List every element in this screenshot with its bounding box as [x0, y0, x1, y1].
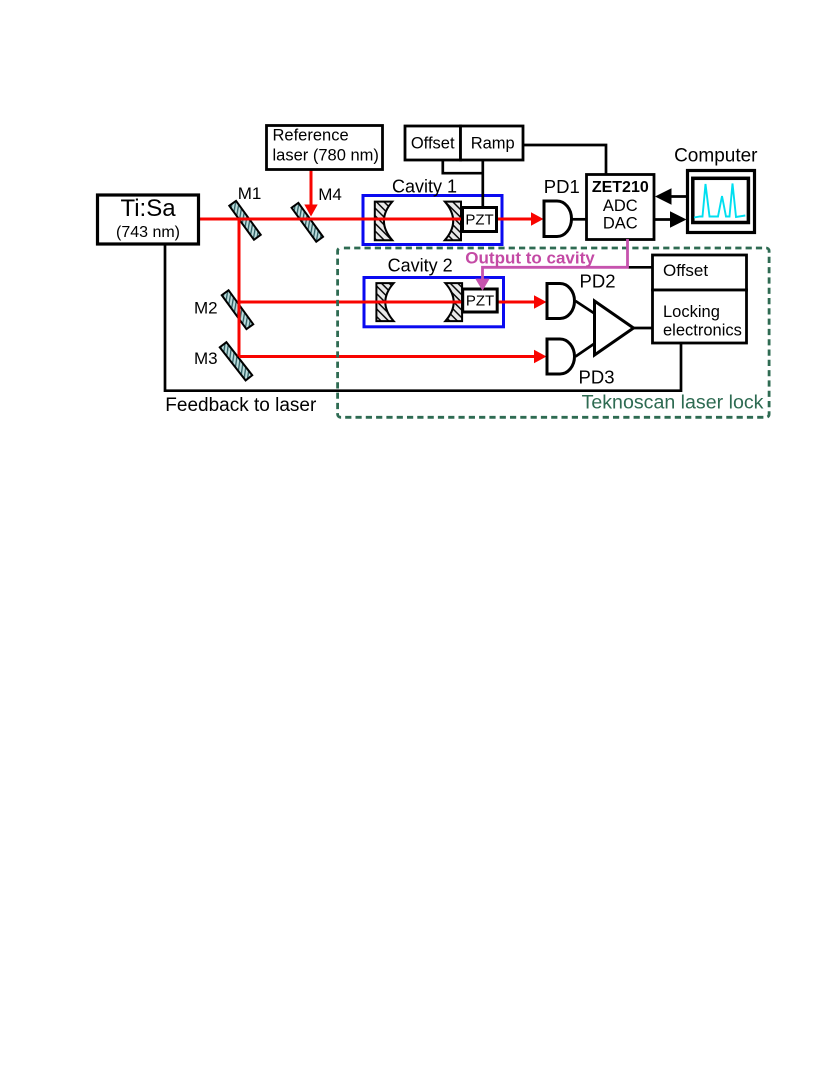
svg-text:M4: M4: [318, 185, 342, 204]
svg-text:Ramp: Ramp: [471, 135, 515, 153]
svg-text:ZET210: ZET210: [592, 179, 649, 196]
svg-text:electronics: electronics: [663, 322, 742, 340]
svg-text:Ti:Sa: Ti:Sa: [120, 195, 176, 222]
svg-text:ADC: ADC: [603, 197, 638, 215]
svg-text:PZT: PZT: [466, 292, 494, 309]
svg-text:PZT: PZT: [465, 212, 493, 229]
svg-text:Offset: Offset: [663, 261, 708, 280]
svg-text:Cavity 2: Cavity 2: [388, 256, 453, 276]
svg-text:PD2: PD2: [580, 270, 616, 291]
svg-text:Cavity 1: Cavity 1: [392, 177, 457, 197]
svg-text:DAC: DAC: [603, 215, 638, 233]
svg-text:laser (780 nm): laser (780 nm): [273, 147, 379, 165]
svg-text:M1: M1: [238, 184, 262, 203]
svg-text:M3: M3: [194, 349, 218, 368]
svg-text:Teknoscan laser lock: Teknoscan laser lock: [582, 391, 764, 413]
svg-text:PD1: PD1: [544, 176, 580, 197]
svg-text:Locking: Locking: [663, 303, 720, 321]
svg-text:Feedback to laser: Feedback to laser: [165, 395, 317, 416]
svg-text:(743 nm): (743 nm): [116, 224, 180, 241]
svg-text:Output to cavity: Output to cavity: [465, 249, 595, 268]
svg-text:M2: M2: [194, 299, 218, 318]
svg-text:Offset: Offset: [411, 135, 455, 153]
svg-text:Reference: Reference: [273, 127, 349, 145]
svg-text:Computer: Computer: [674, 146, 758, 167]
svg-text:PD3: PD3: [579, 367, 615, 388]
